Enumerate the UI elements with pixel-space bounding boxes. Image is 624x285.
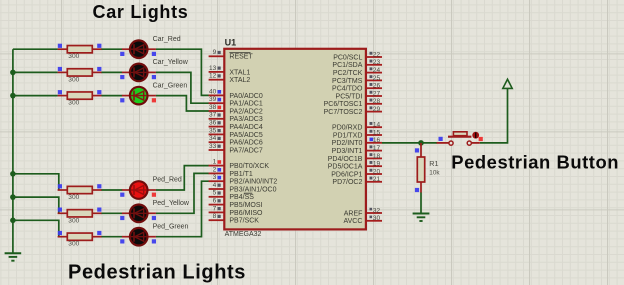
marker right of LED Ped_Yellow bbox=[152, 216, 156, 220]
svg-text:300: 300 bbox=[68, 76, 79, 83]
svg-text:PA6/ADC6: PA6/ADC6 bbox=[229, 140, 262, 147]
resistor 300 (ped yellow) bbox=[58, 210, 123, 217]
svg-text:PC4/TDO: PC4/TDO bbox=[332, 86, 363, 93]
marker R1 bottom bbox=[415, 188, 419, 192]
svg-text:PB1/T1: PB1/T1 bbox=[229, 171, 252, 178]
wire car yellow row bbox=[13, 71, 58, 73]
wire button to VCC riser bbox=[480, 88, 508, 142]
svg-text:PA5/ADC5: PA5/ADC5 bbox=[229, 132, 262, 139]
U1 pin 29 (PC7/TOSC2) bbox=[324, 106, 382, 116]
U1 pin 34 (PA6/ADC6) bbox=[209, 135, 263, 147]
svg-text:3: 3 bbox=[213, 174, 217, 181]
svg-text:Car_Yellow: Car_Yellow bbox=[153, 59, 189, 66]
svg-text:XTAL1: XTAL1 bbox=[229, 69, 250, 76]
svg-text:36: 36 bbox=[209, 120, 217, 127]
U1 pin 35 (PA5/ADC5) bbox=[209, 127, 263, 139]
svg-text:9: 9 bbox=[213, 49, 217, 56]
junction rail/ped yellow bbox=[10, 194, 16, 200]
U1 pin 33 (PA7/ADC7) bbox=[209, 143, 263, 155]
wire car green row bbox=[13, 95, 58, 97]
U1 pin 5 (PB4/SS) bbox=[209, 190, 255, 202]
svg-text:AVCC: AVCC bbox=[343, 218, 362, 225]
svg-text:Car Lights: Car Lights bbox=[93, 2, 189, 22]
marker right of LED Car_Red bbox=[152, 52, 156, 56]
svg-text:U1: U1 bbox=[225, 37, 237, 47]
svg-text:4: 4 bbox=[213, 182, 217, 189]
svg-text:Ped_Green: Ped_Green bbox=[153, 223, 189, 230]
svg-text:300: 300 bbox=[68, 100, 79, 107]
svg-text:21: 21 bbox=[373, 176, 381, 183]
svg-text:22: 22 bbox=[373, 51, 381, 58]
U1 pin 4 (PB3/AIN1/OC0) bbox=[209, 182, 277, 194]
svg-text:PB2/AIN0/INT2: PB2/AIN0/INT2 bbox=[229, 179, 277, 186]
svg-text:Ped_Red: Ped_Red bbox=[153, 177, 182, 184]
svg-text:Car_Green: Car_Green bbox=[153, 82, 188, 89]
svg-text:PD3/INT1: PD3/INT1 bbox=[332, 148, 363, 155]
svg-text:29: 29 bbox=[373, 106, 381, 113]
svg-text:8: 8 bbox=[213, 213, 217, 220]
U1 pin 27 (PC5/TDI) bbox=[336, 90, 382, 100]
LED Car_Green bbox=[122, 86, 156, 106]
U1 pin 7 (PB6/MISO) bbox=[209, 205, 263, 217]
svg-text:17: 17 bbox=[373, 145, 381, 152]
svg-text:300: 300 bbox=[68, 53, 79, 60]
svg-text:PB5/MOSI: PB5/MOSI bbox=[229, 202, 262, 209]
svg-text:PB6/MISO: PB6/MISO bbox=[229, 210, 263, 217]
svg-text:PD1/TXD: PD1/TXD bbox=[333, 132, 363, 139]
wire car red row bbox=[13, 48, 58, 50]
svg-text:PB7/SCK: PB7/SCK bbox=[229, 218, 259, 225]
svg-text:PD4/OC1B: PD4/OC1B bbox=[328, 156, 363, 163]
U1 pin 24 (PC2/TCK) bbox=[333, 67, 382, 77]
junction button node / R1 bbox=[418, 140, 424, 146]
svg-text:PB4/SS: PB4/SS bbox=[229, 194, 254, 201]
wire car yellow LED to pin 39 bbox=[156, 72, 209, 103]
wire ped green LED to pin 3 bbox=[156, 181, 209, 237]
resistor 300 (car green) bbox=[58, 92, 123, 99]
svg-text:PD7/OC2: PD7/OC2 bbox=[332, 179, 362, 186]
svg-text:PC2/TCK: PC2/TCK bbox=[333, 70, 363, 77]
svg-text:Ped_Yellow: Ped_Yellow bbox=[153, 200, 190, 207]
svg-text:300: 300 bbox=[68, 194, 79, 201]
svg-text:10k: 10k bbox=[429, 170, 440, 177]
marker right of resistor ped yellow bbox=[97, 208, 101, 212]
svg-text:35: 35 bbox=[209, 127, 217, 134]
marker right of LED Car_Green bbox=[152, 98, 156, 102]
svg-text:1: 1 bbox=[213, 159, 217, 166]
svg-text:27: 27 bbox=[373, 90, 381, 97]
marker right of resistor ped green bbox=[97, 231, 101, 235]
power VCC arrow bbox=[503, 79, 512, 88]
svg-text:PD5/OC1A: PD5/OC1A bbox=[328, 164, 363, 171]
wire ped red LED to pin 1 bbox=[156, 166, 209, 190]
marker left of LED Ped_Green bbox=[120, 239, 124, 243]
marker left of LED Car_Red bbox=[120, 52, 124, 56]
svg-text:37: 37 bbox=[209, 112, 217, 119]
U1 pin 37 (PA3/ADC3) bbox=[209, 112, 263, 124]
svg-text:13: 13 bbox=[209, 65, 217, 72]
svg-text:33: 33 bbox=[209, 143, 217, 150]
U1 pin 14 (PD0/RXD) bbox=[332, 122, 382, 132]
U1 pin 26 (PC4/TDO) bbox=[332, 83, 382, 93]
U1 pin 32 (AREF) bbox=[344, 207, 382, 217]
svg-text:39: 39 bbox=[209, 96, 217, 103]
wire ped yellow from rail bbox=[13, 197, 59, 213]
marker left of LED Ped_Red bbox=[120, 193, 124, 197]
svg-text:PA2/ADC2: PA2/ADC2 bbox=[229, 108, 262, 115]
svg-text:19: 19 bbox=[373, 161, 381, 168]
svg-text:38: 38 bbox=[209, 104, 217, 111]
svg-text:PD6/ICP1: PD6/ICP1 bbox=[331, 171, 362, 178]
marker left of resistor car red bbox=[58, 44, 62, 48]
LED Ped_Green bbox=[122, 227, 156, 247]
marker left of LED Car_Green bbox=[120, 98, 124, 102]
U1 pin 15 (PD1/TXD) bbox=[333, 129, 382, 139]
U1 pin 23 (PC1/SDA) bbox=[332, 59, 382, 69]
resistor R1 bbox=[417, 143, 424, 193]
resistor 300 (ped green) bbox=[58, 233, 123, 240]
ground (R1) bbox=[413, 214, 430, 222]
wire R1 to ground bbox=[420, 192, 422, 213]
marker right of LED Ped_Red bbox=[152, 193, 156, 197]
wire pin 16 to button node bbox=[382, 142, 437, 144]
U1 pin 36 (PA4/ADC4) bbox=[209, 120, 263, 132]
U1 pin 22 (PC0/SCL) bbox=[333, 51, 382, 61]
svg-text:ATMEGA32: ATMEGA32 bbox=[225, 231, 262, 238]
marker right of resistor ped red bbox=[97, 184, 101, 188]
svg-text:7: 7 bbox=[213, 205, 217, 212]
svg-text:PC1/SDA: PC1/SDA bbox=[332, 62, 362, 69]
U1 pin 30 (AVCC) bbox=[343, 215, 382, 225]
U1 pin 25 (PC3/TMS) bbox=[332, 75, 382, 85]
LED Ped_Yellow bbox=[122, 203, 156, 223]
svg-text:2: 2 bbox=[213, 166, 217, 173]
U1 pin 28 (PC6/TOSC1) bbox=[324, 98, 382, 108]
junction rail/car green bbox=[10, 93, 16, 99]
svg-text:PC5/TDI: PC5/TDI bbox=[336, 93, 363, 100]
svg-text:34: 34 bbox=[209, 135, 217, 142]
resistor 300 (car red) bbox=[58, 46, 123, 53]
U1 pin 38 (PA2/ADC2) bbox=[209, 104, 263, 116]
svg-text:12: 12 bbox=[209, 73, 217, 80]
LED Car_Red bbox=[122, 39, 156, 59]
svg-text:20: 20 bbox=[373, 168, 381, 175]
svg-text:PD2/INT0: PD2/INT0 bbox=[332, 140, 363, 147]
svg-text:PB0/T0/XCK: PB0/T0/XCK bbox=[229, 163, 269, 170]
ground (left rail) bbox=[5, 253, 22, 260]
svg-text:PA0/ADC0: PA0/ADC0 bbox=[229, 93, 262, 100]
marker left of resistor ped yellow bbox=[58, 208, 62, 212]
svg-text:18: 18 bbox=[373, 153, 381, 160]
svg-text:PA1/ADC1: PA1/ADC1 bbox=[229, 101, 262, 108]
U1 pin 3 (PB2/AIN0/INT2) bbox=[209, 174, 278, 186]
U1 pin 18 (PD4/OC1B) bbox=[328, 153, 382, 163]
svg-text:PA7/ADC7: PA7/ADC7 bbox=[229, 147, 262, 154]
svg-text:30: 30 bbox=[373, 215, 381, 222]
marker button left bbox=[439, 137, 443, 141]
resistor 300 (ped red) bbox=[58, 186, 123, 193]
marker left of LED Car_Yellow bbox=[120, 75, 124, 79]
svg-text:Pedestrian Lights: Pedestrian Lights bbox=[68, 261, 246, 283]
svg-text:23: 23 bbox=[373, 59, 381, 66]
svg-text:40: 40 bbox=[209, 88, 217, 95]
U1 pin 6 (PB5/MOSI) bbox=[209, 198, 263, 210]
svg-text:6: 6 bbox=[213, 198, 217, 205]
U1 pin 19 (PD5/OC1A) bbox=[328, 161, 382, 171]
wire ped yellow LED to pin 2 bbox=[156, 173, 209, 213]
svg-text:32: 32 bbox=[373, 207, 381, 214]
svg-text:AREF: AREF bbox=[344, 210, 363, 217]
LED Car_Yellow bbox=[122, 63, 156, 83]
U1 pin 12 (XTAL2) bbox=[209, 73, 251, 85]
svg-text:Car_Red: Car_Red bbox=[153, 36, 181, 43]
svg-text:5: 5 bbox=[213, 190, 217, 197]
microcontroller U1 ATMEGA32 body bbox=[224, 49, 366, 230]
svg-text:14: 14 bbox=[373, 122, 381, 129]
svg-text:RESET: RESET bbox=[229, 54, 253, 61]
svg-text:PA4/ADC4: PA4/ADC4 bbox=[229, 124, 262, 131]
svg-text:PB3/AIN1/OC0: PB3/AIN1/OC0 bbox=[229, 186, 276, 193]
marker left of resistor ped red bbox=[58, 184, 62, 188]
junction rail/ped red bbox=[10, 171, 16, 177]
marker right of resistor car yellow bbox=[97, 67, 101, 71]
svg-text:PC7/TOSC2: PC7/TOSC2 bbox=[324, 109, 363, 116]
U1 pin 1 (PB0/T0/XCK) bbox=[209, 159, 270, 171]
svg-text:24: 24 bbox=[373, 67, 381, 74]
wire car red LED to pin 40 bbox=[156, 49, 209, 95]
svg-text:PC0/SCL: PC0/SCL bbox=[333, 54, 362, 61]
marker left of LED Ped_Yellow bbox=[120, 216, 124, 220]
svg-text:300: 300 bbox=[68, 241, 79, 248]
svg-text:PC6/TOSC1: PC6/TOSC1 bbox=[324, 101, 363, 108]
svg-text:25: 25 bbox=[373, 75, 381, 82]
junction rail/car yellow bbox=[10, 70, 16, 76]
U1 pin 20 (PD6/ICP1) bbox=[331, 168, 382, 178]
svg-text:16: 16 bbox=[373, 137, 381, 144]
marker right of LED Ped_Green bbox=[152, 239, 156, 243]
svg-text:15: 15 bbox=[373, 129, 381, 136]
wire ped red from rail bbox=[13, 174, 59, 190]
svg-text:Pedestrian Button: Pedestrian Button bbox=[451, 152, 619, 173]
svg-text:28: 28 bbox=[373, 98, 381, 105]
junction rail/ped green bbox=[10, 218, 16, 224]
svg-text:26: 26 bbox=[373, 83, 381, 90]
marker button right bbox=[479, 137, 483, 141]
wire ground rail (left vertical) bbox=[12, 49, 14, 252]
U1 pin 40 (PA0/ADC0) bbox=[209, 88, 263, 100]
U1 pin 16 (PD2/INT0) bbox=[332, 137, 382, 147]
marker right of LED Car_Yellow bbox=[152, 75, 156, 79]
marker right of resistor car red bbox=[97, 44, 101, 48]
resistor 300 (car yellow) bbox=[58, 69, 123, 76]
svg-text:XTAL2: XTAL2 bbox=[229, 77, 250, 84]
U1 pin 8 (PB7/SCK) bbox=[209, 213, 260, 225]
U1 pin 9 (RESET) bbox=[209, 49, 254, 61]
wire ped green from rail bbox=[13, 220, 59, 236]
svg-text:300: 300 bbox=[68, 217, 79, 224]
marker left of resistor car green bbox=[58, 90, 62, 94]
U1 pin 2 (PB1/T1) bbox=[209, 166, 253, 178]
U1 pin 21 (PD7/OC2) bbox=[332, 176, 382, 186]
marker right of resistor car green bbox=[97, 90, 101, 94]
svg-text:PC3/TMS: PC3/TMS bbox=[332, 78, 363, 85]
wire car green LED to pin 38 bbox=[156, 96, 209, 111]
U1 pin 39 (PA1/ADC1) bbox=[209, 96, 263, 108]
marker left of resistor car yellow bbox=[58, 67, 62, 71]
marker left of resistor ped green bbox=[58, 231, 62, 235]
svg-text:R1: R1 bbox=[429, 159, 438, 168]
U1 pin 17 (PD3/INT1) bbox=[332, 145, 382, 155]
push button (pedestrian) bbox=[437, 132, 480, 145]
U1 pin 13 (XTAL1) bbox=[209, 65, 251, 77]
LED Ped_Red bbox=[122, 180, 156, 200]
svg-text:PA3/ADC3: PA3/ADC3 bbox=[229, 116, 262, 123]
svg-text:PD0/RXD: PD0/RXD bbox=[332, 125, 362, 132]
marker R1 top bbox=[415, 148, 419, 152]
